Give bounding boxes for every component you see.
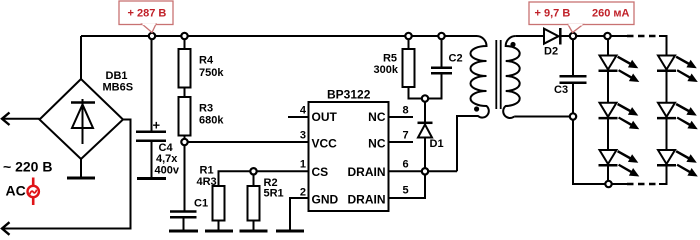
wire GND (pin 2) <box>290 198 309 230</box>
svg-text:4: 4 <box>300 105 307 117</box>
bridge rectifier DB1 diamond <box>40 79 124 159</box>
resistor R2 <box>248 186 260 221</box>
wire R5 top lead <box>408 36 410 49</box>
svg-text:400v: 400v <box>155 165 180 177</box>
wire C2 top lead <box>441 36 443 67</box>
svg-text:MB6S: MB6S <box>103 82 134 94</box>
svg-text:5: 5 <box>403 185 409 197</box>
wire CS (pin 1) <box>219 171 309 186</box>
svg-text:5R1: 5R1 <box>264 188 284 200</box>
wire C3 bottom lead <box>572 83 574 117</box>
svg-text:NC: NC <box>368 110 386 124</box>
svg-text:+ 9,7 В: + 9,7 В <box>535 8 571 20</box>
node +287V <box>149 33 155 39</box>
AC source symbol <box>28 178 39 206</box>
node CS / R2 top <box>250 168 256 174</box>
wire VCC node down to C1 <box>184 142 186 212</box>
capacitor C1 <box>170 212 197 218</box>
LED D4 <box>599 103 618 118</box>
wire bridge bottom lead <box>80 159 82 177</box>
svg-text:6: 6 <box>403 159 409 171</box>
svg-text:C1: C1 <box>194 198 208 210</box>
svg-text:D1: D1 <box>430 138 444 150</box>
capacitor C3 top lead <box>572 36 574 76</box>
svg-text:R1: R1 <box>200 165 214 177</box>
wire LED top rail solid <box>608 35 628 37</box>
resistor R1 <box>213 186 225 221</box>
wire R1 bottom lead <box>218 221 220 230</box>
wire R2 top lead <box>253 171 255 186</box>
wire LED top rail dashed <box>627 35 659 38</box>
svg-text:OUT: OUT <box>312 110 338 124</box>
wire secondary top to D2 <box>516 35 544 37</box>
node R5 top <box>405 33 411 39</box>
wire pin 6 DRAIN <box>389 170 458 172</box>
LED light arrows <box>617 56 698 177</box>
transformer T1 secondary winding <box>503 36 520 118</box>
callout +287V box <box>119 1 173 33</box>
svg-text:D2: D2 <box>544 46 558 58</box>
svg-text:CS: CS <box>312 165 329 179</box>
ground bar R2 <box>240 230 268 233</box>
transformer secondary polarity dot <box>510 42 515 47</box>
LED column 1 wires <box>607 36 609 56</box>
svg-text:4,7x: 4,7x <box>156 153 178 165</box>
wire R3 bottom to VCC node <box>184 136 186 143</box>
svg-text:+ 287 В: + 287 В <box>128 8 167 20</box>
node secondary-C3 <box>570 113 576 119</box>
transformer primary polarity dot <box>474 106 479 111</box>
svg-text:BP3122: BP3122 <box>327 88 371 102</box>
svg-text:R5: R5 <box>383 53 397 65</box>
node C2 top <box>438 33 444 39</box>
LED D7 <box>657 103 676 118</box>
svg-text:300k: 300k <box>374 64 399 76</box>
transformer T1 primary winding <box>471 36 489 118</box>
wire pin 8 NC stub <box>389 116 414 118</box>
wire main top rail <box>81 35 477 37</box>
capacitor C3 <box>560 76 587 82</box>
wire pin 7 NC stub <box>389 141 414 143</box>
svg-text:4R3: 4R3 <box>197 176 217 188</box>
wire LED bottom rail solid <box>609 183 628 185</box>
LED column 2 wires <box>666 71 668 103</box>
ground bar bridge <box>67 177 95 180</box>
resistor R5 <box>403 49 415 87</box>
svg-text:AC: AC <box>6 183 26 199</box>
wire C2 bottom to D1 node <box>425 73 442 98</box>
svg-text:DB1: DB1 <box>106 70 128 82</box>
callout +9.7V / 260mA box <box>529 2 634 33</box>
diode D2 <box>544 28 560 45</box>
wire C1 bottom lead <box>183 217 185 229</box>
diode D1 <box>418 99 433 172</box>
wire VCC (pin 3) <box>185 141 309 143</box>
wire D2 to +9.7V node <box>560 35 573 37</box>
wire R4 top lead <box>184 36 186 49</box>
wire bridge top lead <box>80 36 82 79</box>
arrow AC bottom <box>2 222 10 235</box>
wire C4 bottom lead <box>151 141 153 177</box>
svg-text:C3: C3 <box>554 84 568 96</box>
ground bar GND pin <box>276 230 304 233</box>
svg-text:750k: 750k <box>199 67 224 79</box>
node R5-C2-D1 <box>422 95 428 101</box>
wire LED bottom rail to col2 <box>659 166 667 184</box>
svg-text:680k: 680k <box>199 115 224 127</box>
wire pin 4 OUT stub <box>288 116 309 118</box>
LED D8 <box>657 150 676 165</box>
svg-text:3: 3 <box>300 130 306 142</box>
junction nodes (open circles) <box>149 33 612 187</box>
svg-text:260 мА: 260 мА <box>592 8 630 20</box>
LED D5 <box>599 150 618 165</box>
ground bar R1 <box>205 230 233 233</box>
wire AC input top <box>3 118 40 120</box>
LED D3 <box>599 56 618 71</box>
wire C3 node down to LED return <box>573 117 609 184</box>
node LED col1 top <box>604 33 610 39</box>
wire LED top rail to col2 <box>659 36 667 56</box>
wire secondary bottom to C3 node <box>514 116 573 118</box>
svg-text:R3: R3 <box>199 103 213 115</box>
resistor R3 <box>179 97 191 136</box>
node DRAIN junction <box>422 168 428 174</box>
bridge inner diode <box>71 99 95 144</box>
svg-text:VCC: VCC <box>312 137 338 151</box>
capacitor C4 <box>136 132 166 141</box>
node +9.7V <box>570 33 576 39</box>
svg-text:8: 8 <box>403 105 409 117</box>
wire drain to transformer primary <box>457 116 479 171</box>
svg-text:R4: R4 <box>199 55 214 67</box>
LED D6 <box>657 56 676 71</box>
node R4 top <box>181 33 187 39</box>
arrow AC top <box>2 113 10 126</box>
svg-text:1: 1 <box>300 159 306 171</box>
svg-text:~ 220 В: ~ 220 В <box>3 159 52 175</box>
wire bridge right corner to bottom rail <box>3 120 131 229</box>
svg-text:DRAIN: DRAIN <box>348 193 386 207</box>
node VCC / R3 bottom <box>181 139 187 145</box>
svg-text:C2: C2 <box>449 53 463 65</box>
ground bar C1 <box>169 230 198 233</box>
node LED col1 bottom <box>605 181 611 187</box>
wire C4 top lead <box>151 36 153 131</box>
svg-text:GND: GND <box>312 193 339 207</box>
wire pin 5 DRAIN up to pin6 node <box>389 171 426 198</box>
wire R2 bottom lead <box>253 221 255 230</box>
svg-text:NC: NC <box>368 137 386 151</box>
wire R4-R3 <box>184 88 186 98</box>
wire R5 bottom to D1 node <box>409 87 426 99</box>
op-amp U1 IC BP3122 body <box>309 102 389 211</box>
svg-text:DRAIN: DRAIN <box>348 165 386 179</box>
capacitor C2 <box>431 68 452 73</box>
ground bar C4 <box>137 177 166 180</box>
wire +9.7V node to LED col1 node <box>573 35 608 37</box>
resistor R4 <box>179 49 191 88</box>
wire LED bottom rail dashed <box>627 183 659 186</box>
svg-text:7: 7 <box>403 130 409 142</box>
transformer core <box>496 40 500 109</box>
svg-text:+: + <box>153 118 161 133</box>
svg-text:2: 2 <box>300 187 306 199</box>
